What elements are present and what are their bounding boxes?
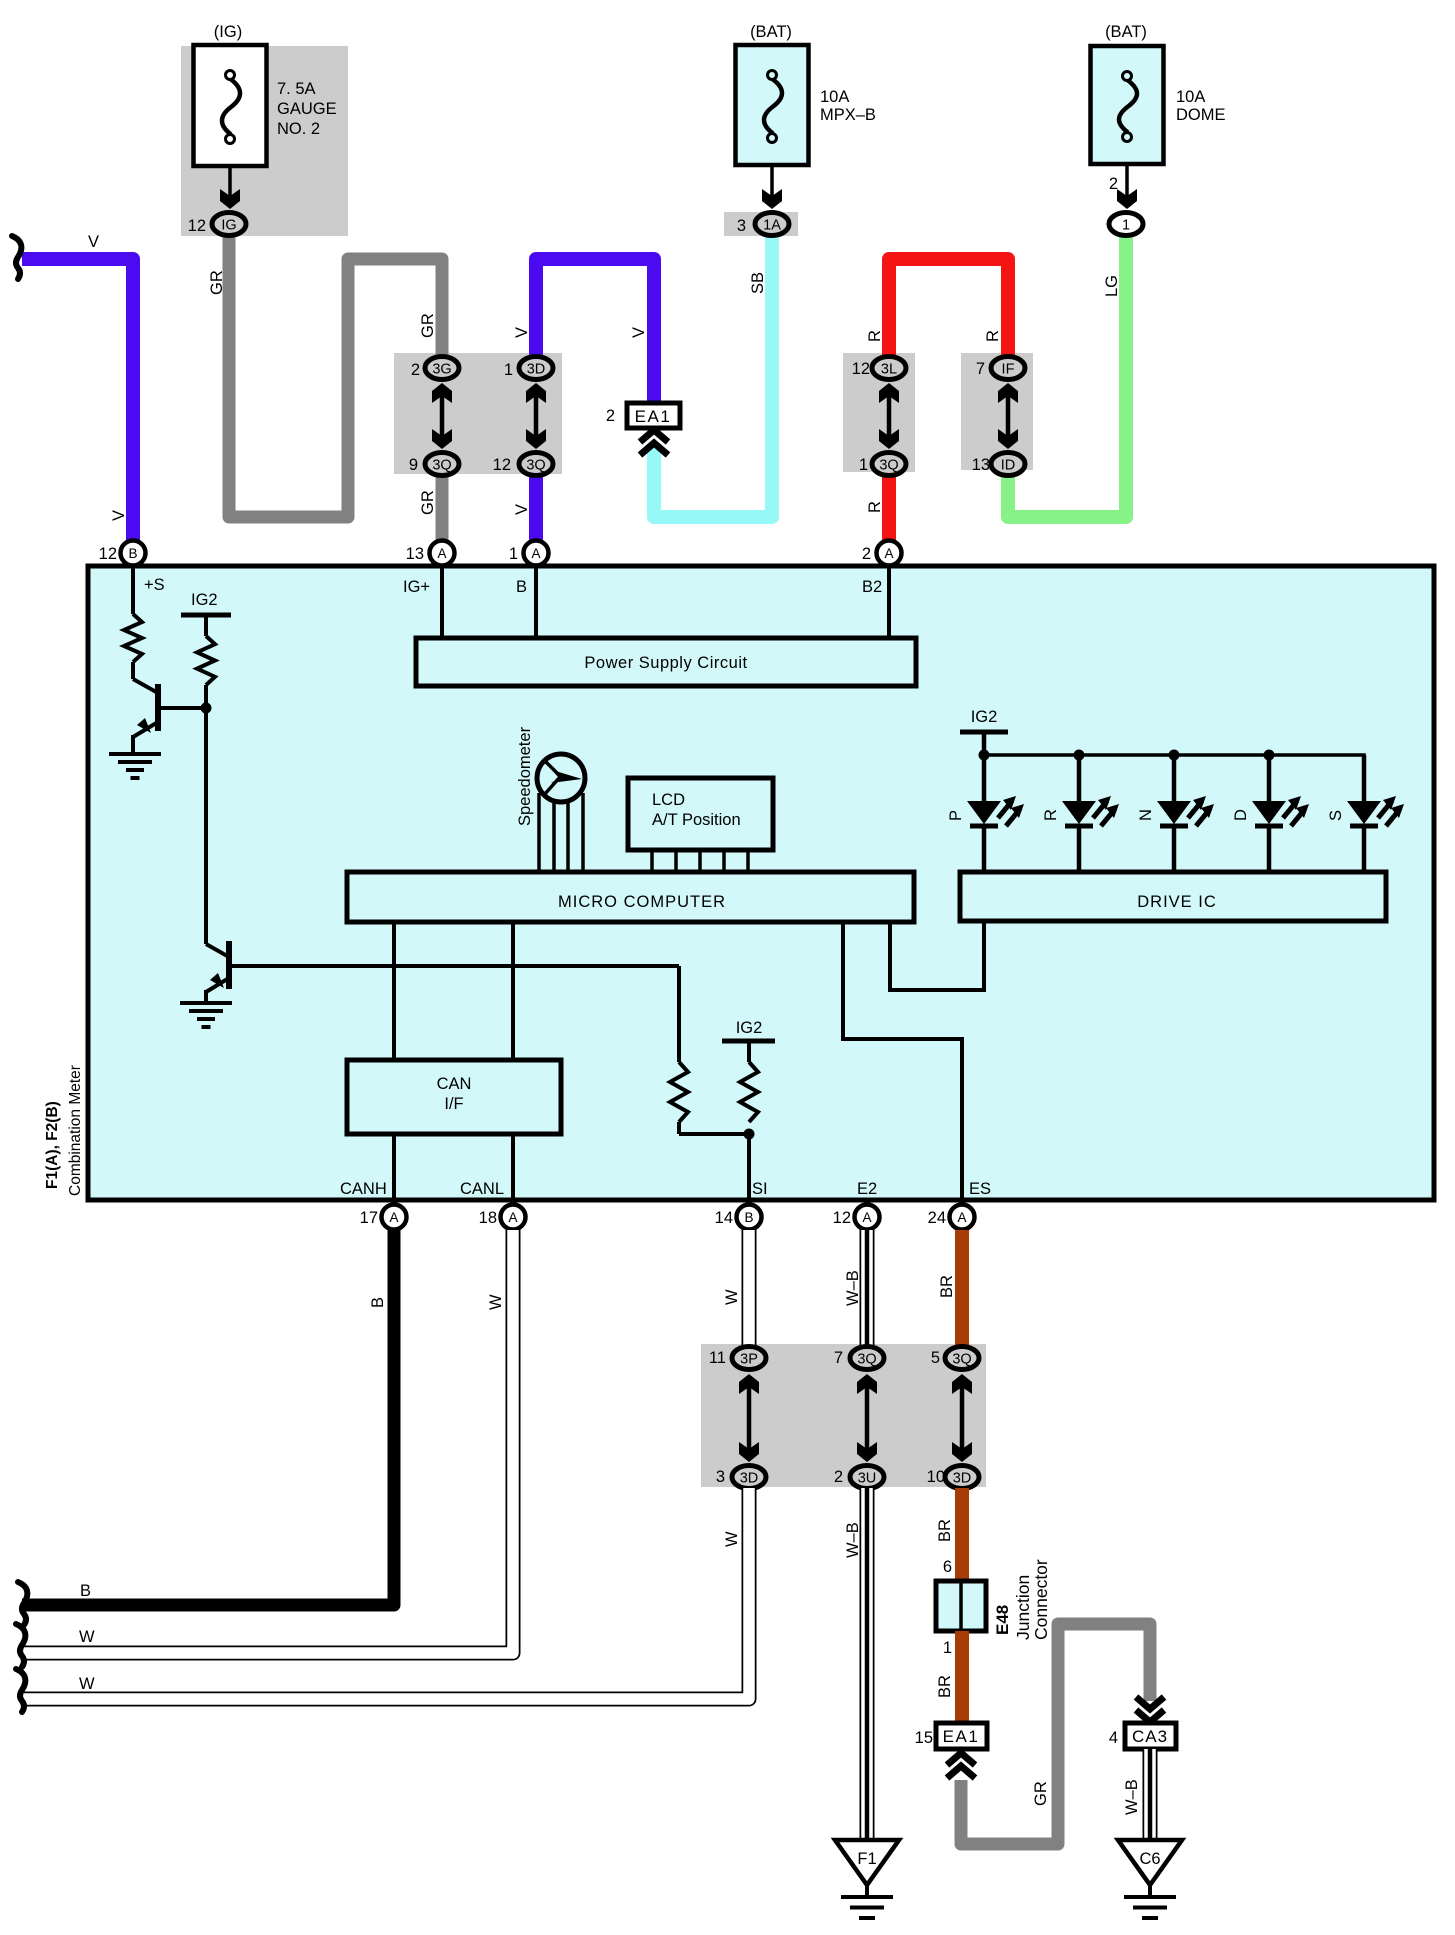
- wire MICRO COMPUTER to CAN I/F (CANH): [392, 922, 396, 1060]
- fuse 10A DOME: [1091, 46, 1164, 164]
- svg-text:V: V: [110, 510, 128, 521]
- transistor Q1: [131, 662, 135, 679]
- svg-text:14: 14: [715, 1209, 733, 1227]
- transistor Q2: [226, 941, 232, 989]
- svg-text:2: 2: [862, 545, 871, 563]
- MICRO COMPUTER block: [347, 872, 914, 922]
- connector shading panel (3P/3Q/3Q to 3D/3U/3D): [701, 1344, 986, 1487]
- fuse 7.5A GAUGE NO.2: [194, 45, 267, 166]
- wire W-B (3U to ground F1): [860, 1488, 875, 1840]
- svg-text:15: 15: [915, 1729, 933, 1747]
- chevrons below EA1 (bottom): [947, 1753, 975, 1765]
- wire BR (E48 to EA1): [955, 1631, 969, 1722]
- svg-text:10A: 10A: [820, 88, 849, 106]
- wire W-B (CA3 to ground C6): [1143, 1749, 1158, 1840]
- svg-text:DOME: DOME: [1176, 106, 1226, 124]
- node SI junction: [744, 1129, 755, 1140]
- wire R from connector 3L to connector IF: [889, 259, 1008, 360]
- wire MICRO COMPUTER to ES pin: [843, 922, 962, 1203]
- svg-text:6: 6: [943, 1558, 952, 1576]
- svg-text:A: A: [862, 1210, 871, 1225]
- svg-text:7: 7: [834, 1349, 843, 1367]
- wire +S to resistor: [131, 566, 135, 614]
- svg-text:B: B: [128, 546, 137, 561]
- IG2 supply bar (left): [181, 613, 231, 618]
- svg-text:GR: GR: [208, 270, 226, 295]
- svg-text:1: 1: [859, 456, 868, 474]
- svg-text:1: 1: [504, 361, 513, 379]
- wire IG2 node to transistor Q2: [204, 708, 208, 944]
- svg-text:MICRO COMPUTER: MICRO COMPUTER: [558, 893, 726, 911]
- LED R: [1077, 755, 1082, 801]
- DRIVE IC block: [960, 872, 1386, 921]
- svg-text:A: A: [957, 1210, 966, 1225]
- junction arrow 3Q-3D: [960, 1384, 965, 1452]
- wire LG from fuse DOME to connector ID: [1008, 237, 1126, 517]
- wire W-B (E2 upper): [860, 1230, 875, 1348]
- svg-text:IF: IF: [1002, 362, 1015, 378]
- svg-text:Connector: Connector: [1031, 1559, 1051, 1640]
- svg-text:A: A: [389, 1210, 398, 1225]
- svg-text:GAUGE: GAUGE: [277, 100, 337, 118]
- ground (Q1): [109, 752, 161, 756]
- svg-text:3G: 3G: [432, 362, 451, 378]
- svg-text:W–B: W–B: [1123, 1779, 1141, 1815]
- svg-text:12: 12: [99, 545, 117, 563]
- wire SB from connector EA1 to fuse MPX-B connector 1A: [654, 237, 772, 517]
- svg-text:W: W: [487, 1294, 505, 1310]
- svg-text:NO. 2: NO. 2: [277, 120, 320, 138]
- speedometer: [537, 754, 585, 802]
- svg-text:24: 24: [928, 1209, 946, 1227]
- svg-text:5: 5: [931, 1349, 940, 1367]
- svg-text:2: 2: [834, 1468, 843, 1486]
- connector IG: [212, 213, 246, 236]
- svg-text:IG+: IG+: [403, 578, 430, 596]
- svg-text:3Q: 3Q: [857, 1352, 876, 1368]
- ground (Q2): [180, 1001, 232, 1005]
- LCD A/T Position block: [628, 778, 773, 850]
- wire CAN I/F to pin CANH: [392, 1134, 396, 1203]
- LCD pins: [650, 850, 654, 872]
- svg-text:3Q: 3Q: [879, 458, 898, 474]
- svg-text:Speedometer: Speedometer: [516, 726, 534, 826]
- resistor (MC side): [677, 966, 681, 1062]
- arrow fuse MPX-B to connector 1A: [770, 165, 774, 196]
- junction connector E48: [936, 1581, 986, 1631]
- svg-text:2: 2: [606, 407, 615, 425]
- svg-text:LCD: LCD: [652, 791, 685, 809]
- svg-text:MPX–B: MPX–B: [820, 106, 876, 124]
- svg-text:4: 4: [1109, 1729, 1118, 1747]
- connector shading panel (IF/ID): [961, 353, 1033, 470]
- junction arrow IF-ID: [1006, 393, 1011, 439]
- speedometer lines to micro computer: [537, 793, 541, 872]
- svg-text:10: 10: [927, 1468, 945, 1486]
- svg-text:B: B: [80, 1582, 91, 1600]
- resistor (IG2 SI): [740, 1062, 758, 1122]
- svg-text:10A: 10A: [1176, 88, 1205, 106]
- svg-text:3Q: 3Q: [526, 458, 545, 474]
- svg-text:IG2: IG2: [736, 1019, 763, 1037]
- IG2 supply bar (LED bank): [960, 730, 1008, 735]
- wire GR (EA1 to CA3): [961, 1624, 1150, 1844]
- wire MICRO COMPUTER to CAN I/F (CANL): [511, 922, 515, 1060]
- svg-text:A: A: [531, 546, 540, 561]
- svg-text:R: R: [1042, 809, 1060, 821]
- svg-text:13: 13: [406, 545, 424, 563]
- svg-text:N: N: [1137, 809, 1155, 821]
- svg-text:GR: GR: [419, 490, 437, 515]
- svg-text:BR: BR: [936, 1519, 954, 1542]
- svg-text:R: R: [866, 330, 884, 342]
- combination meter block F1(A),F2(B): [88, 566, 1434, 1200]
- svg-text:1: 1: [509, 545, 518, 563]
- svg-text:LG: LG: [1103, 275, 1121, 297]
- svg-text:IG2: IG2: [971, 708, 998, 726]
- wire R from connector 3Q to pin 2A B2: [882, 474, 896, 543]
- svg-text:18: 18: [479, 1209, 497, 1227]
- svg-text:P: P: [947, 810, 965, 821]
- wire break symbol (V wire): [12, 236, 21, 279]
- junction arrow 3D-3Q: [534, 393, 539, 439]
- svg-text:7. 5A: 7. 5A: [277, 80, 316, 98]
- svg-text:11: 11: [709, 1349, 726, 1367]
- Power Supply Circuit block: [416, 638, 916, 686]
- svg-text:3U: 3U: [858, 1471, 877, 1487]
- svg-text:17: 17: [360, 1209, 378, 1227]
- wire B2 to Power Supply Circuit: [887, 566, 891, 638]
- svg-text:(IG): (IG): [214, 23, 242, 41]
- svg-text:CA3: CA3: [1132, 1727, 1168, 1746]
- junction arrow 3Q-3U: [865, 1384, 870, 1452]
- svg-text:DRIVE IC: DRIVE IC: [1137, 893, 1217, 911]
- chevrons below EA1: [640, 430, 668, 442]
- svg-text:3D: 3D: [953, 1471, 972, 1487]
- svg-text:GR: GR: [419, 313, 437, 338]
- svg-text:BR: BR: [938, 1275, 956, 1298]
- connector 1A: [755, 213, 789, 236]
- svg-text:12: 12: [852, 360, 870, 378]
- svg-text:C6: C6: [1139, 1850, 1160, 1868]
- ground C6: [1118, 1840, 1182, 1885]
- svg-text:9: 9: [409, 456, 418, 474]
- wire CAN I/F to pin CANL: [511, 1134, 515, 1203]
- svg-text:W–B: W–B: [844, 1270, 862, 1306]
- wire GR from fuse IG to pin 13A IG+: [229, 235, 442, 517]
- svg-text:W: W: [79, 1675, 95, 1693]
- svg-text:3D: 3D: [527, 362, 546, 378]
- svg-text:SB: SB: [749, 272, 767, 294]
- svg-text:ES: ES: [969, 1180, 991, 1198]
- svg-text:3P: 3P: [740, 1352, 758, 1368]
- svg-text:12: 12: [188, 217, 206, 235]
- svg-text:SI: SI: [752, 1180, 768, 1198]
- chevrons above CA3: [1136, 1697, 1164, 1709]
- ground F1: [835, 1840, 899, 1885]
- svg-text:V: V: [513, 327, 531, 338]
- svg-text:ID: ID: [1001, 458, 1016, 474]
- svg-text:W: W: [723, 1531, 741, 1547]
- svg-text:D: D: [1232, 809, 1250, 821]
- CAN I/F block: [347, 1060, 561, 1134]
- svg-text:3D: 3D: [740, 1471, 759, 1487]
- svg-text:A: A: [508, 1210, 517, 1225]
- LED supply bus: [984, 755, 1364, 801]
- svg-text:B: B: [516, 578, 527, 596]
- LED P: [982, 755, 987, 801]
- wire W (SI lower to page edge): [24, 1488, 749, 1699]
- svg-text:A/T Position: A/T Position: [652, 811, 741, 829]
- svg-text:W: W: [79, 1628, 95, 1646]
- svg-text:A: A: [884, 546, 893, 561]
- svg-text:3: 3: [737, 217, 746, 235]
- svg-text:B: B: [744, 1210, 753, 1225]
- svg-text:7: 7: [976, 360, 985, 378]
- svg-text:EA1: EA1: [943, 1727, 980, 1746]
- svg-text:V: V: [630, 327, 648, 338]
- wire W (CANL): [24, 1230, 513, 1653]
- fuse 10A MPX-B: [736, 45, 809, 165]
- connector shading panel (3L/3Q): [843, 353, 915, 472]
- svg-text:12: 12: [833, 1209, 851, 1227]
- svg-text:1: 1: [943, 1639, 952, 1657]
- resistor (+S): [124, 614, 142, 662]
- wire W (SI upper): [742, 1230, 757, 1348]
- svg-text:E2: E2: [857, 1180, 877, 1198]
- svg-text:F1: F1: [857, 1850, 876, 1868]
- svg-text:W: W: [723, 1289, 741, 1305]
- wire IG+ to Power Supply Circuit: [440, 566, 444, 638]
- svg-text:3: 3: [716, 1468, 725, 1486]
- svg-text:I/F: I/F: [444, 1095, 463, 1113]
- connector shading panel (IG fuse): [181, 46, 348, 236]
- svg-text:CAN: CAN: [437, 1075, 472, 1093]
- svg-text:B2: B2: [862, 578, 882, 596]
- svg-text:1A: 1A: [763, 218, 781, 234]
- svg-text:B: B: [369, 1297, 387, 1308]
- svg-text:CANL: CANL: [460, 1180, 504, 1198]
- wire BR (3D to E48): [955, 1488, 969, 1581]
- svg-text:3Q: 3Q: [432, 458, 451, 474]
- svg-text:V: V: [88, 233, 99, 251]
- svg-text:CANH: CANH: [340, 1180, 387, 1198]
- wire B to Power Supply Circuit: [534, 566, 538, 638]
- svg-text:S: S: [1327, 810, 1345, 821]
- LED S: [1362, 755, 1367, 801]
- junction arrow 3G-3Q: [440, 393, 445, 439]
- connector shading panel (3G/3Q 3D/3Q): [394, 353, 562, 474]
- wire V from connector 3D to pin 1A B: [536, 259, 654, 404]
- svg-text:Power Supply Circuit: Power Supply Circuit: [584, 654, 747, 672]
- svg-text:R: R: [984, 330, 1002, 342]
- svg-text:(BAT): (BAT): [1105, 23, 1147, 41]
- svg-text:12: 12: [493, 456, 511, 474]
- svg-text:3Q: 3Q: [952, 1352, 971, 1368]
- LED N: [1172, 755, 1177, 801]
- arrow fuse DOME to connector 1: [1125, 164, 1129, 196]
- resistor (IG2 left): [197, 636, 215, 685]
- arrow fuse GAUGE to connector IG: [228, 166, 232, 196]
- wire BR (ES upper): [955, 1230, 969, 1348]
- svg-text:EA1: EA1: [635, 407, 672, 426]
- svg-text:Combination Meter: Combination Meter: [67, 1065, 84, 1196]
- wire V from +S pin 12B to page edge: [22, 259, 133, 543]
- node base junction Q1: [201, 703, 212, 714]
- svg-text:2: 2: [1109, 175, 1118, 193]
- wire MICRO COMPUTER to DRIVE IC: [890, 922, 984, 990]
- LED D: [1267, 755, 1272, 801]
- svg-text:V: V: [513, 504, 531, 515]
- svg-text:13: 13: [972, 456, 990, 474]
- svg-text:W–B: W–B: [844, 1522, 862, 1558]
- wire B (CANH): [22, 1230, 394, 1605]
- svg-text:3L: 3L: [881, 362, 897, 378]
- svg-text:F1(A), F2(B): F1(A), F2(B): [44, 1101, 61, 1189]
- svg-text:1: 1: [1122, 218, 1130, 234]
- svg-text:E48: E48: [993, 1605, 1012, 1635]
- connector shading panel (1A): [724, 212, 798, 236]
- svg-text:GR: GR: [1032, 1781, 1050, 1806]
- svg-text:A: A: [437, 546, 446, 561]
- svg-text:BR: BR: [936, 1675, 954, 1698]
- junction arrow 3L-3Q: [887, 393, 892, 439]
- svg-text:R: R: [866, 501, 884, 513]
- connector 1: [1109, 213, 1143, 236]
- svg-text:IG: IG: [221, 218, 236, 234]
- svg-text:(BAT): (BAT): [750, 23, 792, 41]
- svg-text:Junction: Junction: [1013, 1575, 1033, 1640]
- junction arrow 3P-3D: [747, 1384, 752, 1452]
- IG2 supply bar (SI): [722, 1039, 775, 1044]
- svg-text:2: 2: [411, 361, 420, 379]
- wire junction to pin SI: [747, 1134, 751, 1203]
- svg-text:IG2: IG2: [191, 591, 218, 609]
- svg-text:+S: +S: [144, 576, 165, 594]
